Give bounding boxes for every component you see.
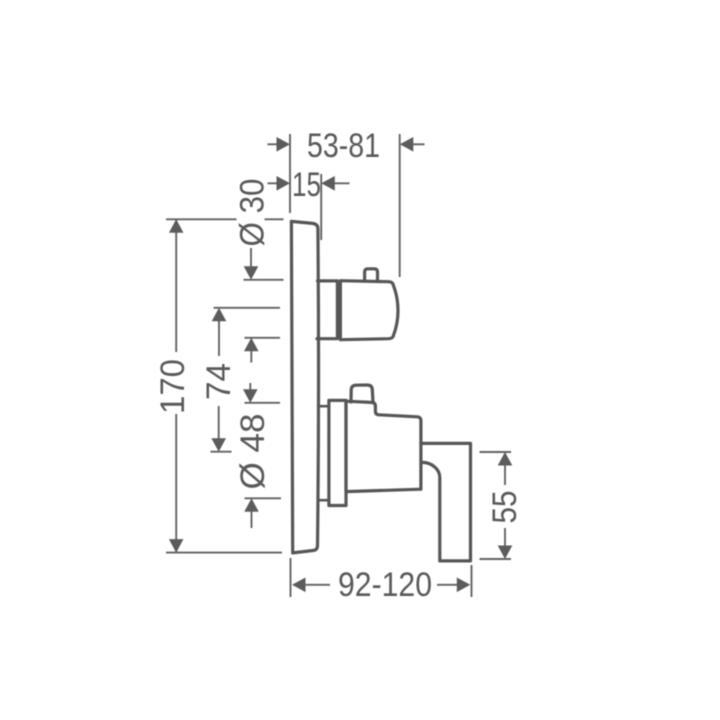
ext line wall plane (top)	[289, 134, 291, 213]
svg-text:55: 55	[486, 491, 524, 524]
svg-text:92-120: 92-120	[338, 566, 432, 604]
wall plate (side view)	[291, 221, 318, 553]
tick dia48 top	[245, 402, 281, 404]
lower valve sleeve	[329, 400, 346, 505]
ext line handle front	[399, 134, 401, 277]
arrowhead 74 upper (points up)	[212, 308, 227, 322]
tick dia30 top	[244, 279, 284, 281]
thermostat handle body	[340, 281, 398, 340]
svg-text:53-81: 53-81	[307, 127, 380, 165]
dim arrow tail dia48 lower	[251, 510, 253, 528]
arrowhead 53-81 left (points right)	[277, 137, 291, 152]
dim arrow tail 55 lower	[504, 528, 506, 547]
arrowhead 92-120 left (points left)	[292, 578, 306, 593]
dimension graphics	[166, 134, 511, 597]
dim line 170	[175, 219, 177, 552]
dim arrow tail 92-120 left	[305, 584, 330, 586]
svg-text:Ø 48: Ø 48	[234, 414, 272, 490]
tick 74 top	[214, 307, 281, 309]
dim arrow tail 74 lower	[218, 406, 220, 439]
dim arrow tail 74 upper	[218, 320, 220, 356]
dim arrow tail 15 left	[268, 182, 280, 184]
thermostat sleeve	[317, 281, 337, 339]
arrowhead 55 upper (points up)	[498, 452, 513, 466]
dim arrow tail 92-120 right	[437, 584, 458, 586]
arrowhead dia48 upper (points down)	[243, 389, 258, 403]
tick 55 top	[480, 451, 512, 453]
thermostat knob	[365, 269, 378, 281]
tick plate-to-sleeve top	[319, 405, 329, 408]
svg-text:170: 170	[154, 359, 192, 414]
arrowhead 74 lower (points down)	[211, 438, 226, 452]
dimension labels	[154, 127, 524, 604]
tick dia48 bottom	[245, 497, 282, 499]
lower valve body	[346, 401, 421, 491]
tick 170 bottom	[166, 552, 282, 554]
arrowheads	[169, 137, 512, 592]
dim arrow tail dia30 upper	[250, 248, 252, 268]
dim arrow tail 15 right	[333, 182, 350, 184]
dim arrow tail 55 upper	[504, 465, 506, 485]
tick 74 bottom	[211, 451, 232, 453]
arrowhead dia30 upper (points down)	[244, 266, 259, 280]
dim arrow tail dia30 lower	[250, 350, 252, 363]
fixture outlines	[291, 221, 470, 561]
tick 170 top	[166, 218, 284, 220]
svg-text:15: 15	[292, 166, 321, 204]
arrowhead 53-81 right (points left)	[400, 137, 414, 152]
ext line bottom-left	[290, 558, 292, 597]
dim arrow tail dia48 upper	[249, 383, 251, 391]
dim arrow tail 53-81 left	[268, 143, 280, 145]
arrowhead 170 top (points up)	[169, 219, 184, 233]
dim arrow tail 53-81 right	[411, 143, 425, 145]
arrowhead dia48 lower (points up)	[244, 498, 259, 512]
arrowhead 15 left (points right)	[277, 176, 291, 191]
arrowhead 15 right (points left)	[321, 176, 335, 191]
arrowhead 55 lower (points down)	[498, 546, 513, 560]
svg-text:Ø 30: Ø 30	[233, 179, 271, 247]
tick plate-to-sleeve bottom	[319, 499, 329, 502]
arrowhead 170 bottom (points down)	[169, 539, 184, 553]
ext line plate front	[320, 174, 322, 240]
lever handle (arm + grip)	[421, 443, 471, 561]
arrowhead dia30 lower (points up)	[244, 338, 259, 352]
arrowhead 92-120 right (points right)	[457, 578, 471, 593]
tick dia30 bottom	[245, 337, 281, 339]
lower valve knob	[351, 385, 373, 402]
tick 55 bottom	[480, 558, 512, 560]
svg-text:74: 74	[200, 363, 238, 400]
ext line bottom-right	[471, 565, 473, 597]
